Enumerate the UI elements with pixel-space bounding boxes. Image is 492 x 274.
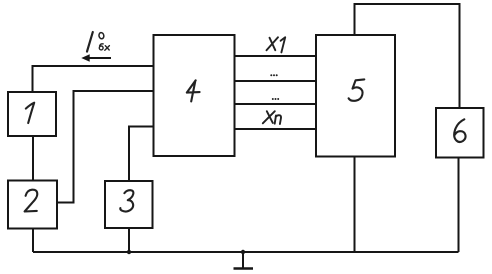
label superscript 0 <box>98 32 104 39</box>
wire: block1 bottom to block2 top <box>32 136 34 181</box>
ground stem <box>242 252 244 268</box>
junction dot ground/bus <box>241 250 245 254</box>
block 3 <box>105 181 153 228</box>
label Xn <box>263 111 281 124</box>
arrowhead <box>81 54 89 61</box>
wire: block4 left to block3 top <box>129 127 154 182</box>
block 2 <box>8 181 57 229</box>
wire: block4 left to block2 right <box>57 91 154 203</box>
wire: block5 top to block6 top <box>355 4 460 108</box>
wire: block6 bottom to bus <box>458 158 460 253</box>
dots between x2 and Xn <box>272 98 279 100</box>
wire X1 <box>235 55 317 57</box>
wire: block3 bottom to bus <box>128 228 130 252</box>
label 5 <box>349 79 365 100</box>
wire: ground bus <box>33 251 459 253</box>
label 6 <box>454 119 465 142</box>
label 4 <box>187 80 200 101</box>
label I of input current <box>87 32 93 52</box>
wire input: block4 left to block1 top <box>33 66 154 92</box>
block 4 <box>154 35 235 156</box>
label 2 <box>25 190 38 212</box>
wire Xn <box>235 128 317 130</box>
block 6 <box>436 108 484 158</box>
junction dot block3/bus <box>127 250 131 254</box>
block 5 <box>316 35 395 157</box>
label 1 <box>26 103 34 123</box>
ground bar <box>234 267 254 270</box>
label X1 <box>267 37 286 52</box>
wire x2 <box>235 80 317 82</box>
label subscript vx: letter v <box>99 44 103 50</box>
arrow shaft for input current <box>87 57 111 59</box>
label 3 <box>120 190 133 211</box>
block 1 <box>8 92 56 136</box>
wire: block5 bottom to bus <box>354 157 356 253</box>
label subscript vx: letter x <box>105 46 110 51</box>
wire x3 <box>235 103 317 105</box>
dots between X1 and x2 <box>270 74 277 76</box>
wire: block2 bottom to ground bus <box>32 229 34 253</box>
